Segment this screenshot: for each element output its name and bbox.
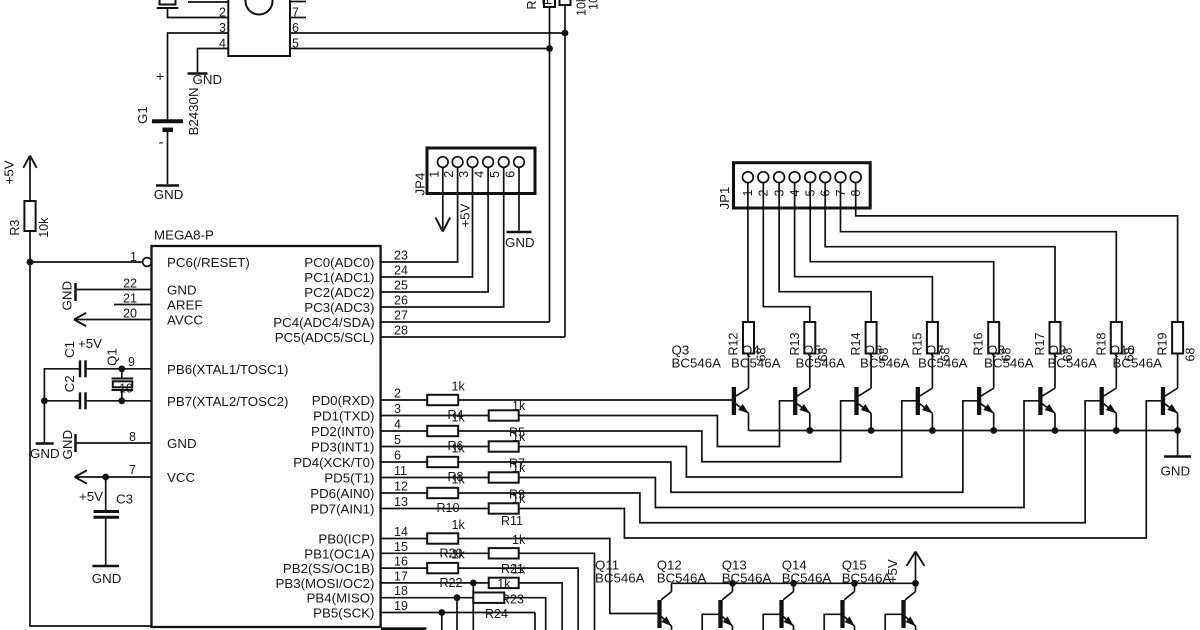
pin 1 bubble xyxy=(143,258,152,267)
node XTAL1 junction xyxy=(118,365,125,372)
wire PD0(RXD) to resistor xyxy=(381,399,428,401)
wire JP4 pin1 to +5V xyxy=(442,167,444,229)
node emitter Q9 xyxy=(1113,427,1120,434)
svg-text:VCC: VCC xyxy=(167,470,195,485)
wire U1 pin5 SDA xyxy=(290,48,550,50)
svg-text:6: 6 xyxy=(394,449,401,463)
svg-text:PD0(RXD): PD0(RXD) xyxy=(312,393,375,408)
svg-text:2: 2 xyxy=(219,6,226,20)
node emitter Q6 xyxy=(929,427,936,434)
svg-text:GND: GND xyxy=(92,571,122,586)
svg-text:R13: R13 xyxy=(788,333,802,356)
JP1 pin 3 circle xyxy=(774,172,785,183)
resistor R18 body xyxy=(1111,322,1122,354)
wire JP4 pin4 inside xyxy=(487,167,489,196)
svg-text:JP1: JP1 xyxy=(717,187,732,210)
wire PD1(TXD) to resistor xyxy=(381,415,489,417)
svg-text:5: 5 xyxy=(488,171,502,178)
wire JP4 pin6 to ground xyxy=(518,167,520,230)
JP1 pin 4 circle xyxy=(789,172,800,183)
svg-text:4: 4 xyxy=(394,418,401,432)
wire PD2(INT0) staircase to Q5 base xyxy=(458,401,855,462)
node C2 ground junction xyxy=(41,397,48,404)
svg-text:PB5(SCK): PB5(SCK) xyxy=(313,606,374,621)
svg-text:B2430N: B2430N xyxy=(186,87,201,135)
JP1 pin 2 circle xyxy=(758,172,769,183)
svg-text:PB2(SS/OC1B): PB2(SS/OC1B) xyxy=(283,561,375,576)
supply +5V arrow at AVCC xyxy=(74,313,86,320)
resistor R5 body xyxy=(489,410,519,420)
wire PD5(T1) staircase to Q8 base xyxy=(519,401,1039,508)
wire PD6(AIN0) staircase to Q9 base xyxy=(458,401,1100,523)
svg-text:C2: C2 xyxy=(62,375,77,392)
svg-text:PD7(AIN1): PD7(AIN1) xyxy=(310,502,374,517)
capacitor C3 plates xyxy=(94,510,120,513)
resistor R21 body xyxy=(489,548,519,558)
svg-text:15: 15 xyxy=(394,540,408,554)
wire battery to ground xyxy=(167,132,169,184)
svg-text:+5V: +5V xyxy=(79,489,103,504)
svg-text:2: 2 xyxy=(394,387,401,401)
svg-text:BC546A: BC546A xyxy=(731,356,781,371)
svg-text:17: 17 xyxy=(394,569,408,583)
wire MISO down xyxy=(456,598,458,630)
transistor Q3 xyxy=(732,387,736,415)
connector JP1 body xyxy=(734,163,871,208)
wire U1 pin3 to battery xyxy=(168,33,229,119)
wire SCL vertical xyxy=(564,5,566,337)
transistor Q14 xyxy=(840,600,844,628)
svg-text:1k: 1k xyxy=(497,577,511,591)
svg-text:1k: 1k xyxy=(512,562,526,576)
svg-text:BC546A: BC546A xyxy=(984,356,1034,371)
resistor R9 body xyxy=(489,472,519,482)
wire PC4 to SDA xyxy=(381,321,550,323)
svg-text:GND: GND xyxy=(193,72,223,87)
svg-text:10k: 10k xyxy=(587,0,601,10)
ground GND below battery xyxy=(156,184,179,187)
wire R20 to Q11 base xyxy=(458,539,657,614)
resistor R19 body xyxy=(1172,322,1183,354)
svg-text:GND: GND xyxy=(167,283,197,298)
wire base Q14 xyxy=(824,614,840,630)
crystal Q1 plates xyxy=(112,378,134,380)
wire MEGA8 pin20 AVCC xyxy=(74,319,152,321)
svg-text:24: 24 xyxy=(394,264,408,278)
wire JP1 pin8 to R19 xyxy=(856,183,1178,322)
JP1 pin 6 circle xyxy=(820,172,831,183)
wire JP1 pin5 to R16 xyxy=(810,183,994,322)
wire C3 to ground xyxy=(105,518,107,566)
svg-text:27: 27 xyxy=(394,309,408,323)
svg-text:AVCC: AVCC xyxy=(167,313,203,328)
wire R22 down xyxy=(458,568,578,630)
wire MEGA8 pin22 GND xyxy=(77,289,152,291)
transistor Q12 xyxy=(718,600,722,628)
wire PD2(INT0) to resistor xyxy=(381,430,428,432)
transistor Q8 xyxy=(1038,387,1042,415)
wire rail to ground xyxy=(1177,431,1179,456)
svg-text:19: 19 xyxy=(394,599,408,613)
svg-text:+: + xyxy=(156,68,164,84)
svg-text:R1: R1 xyxy=(525,0,539,10)
wire JP1 pin7 to R18 xyxy=(841,183,1117,322)
svg-text:3: 3 xyxy=(457,171,471,178)
svg-text:8: 8 xyxy=(129,430,136,444)
svg-text:GND: GND xyxy=(60,281,75,311)
IC U1 DIP-8 RTC body xyxy=(228,0,290,56)
supply +5V arrow at VCC xyxy=(75,470,87,477)
node SCK junction xyxy=(438,609,445,616)
svg-text:1k: 1k xyxy=(452,380,466,394)
svg-text:GND: GND xyxy=(30,446,60,461)
wire U1 pin8 stub xyxy=(290,1,306,3)
node MOSI junction xyxy=(470,580,477,587)
JP4 pin 5 circle xyxy=(498,157,509,168)
wire JP1 pin6 to R17 xyxy=(825,183,1055,322)
node collector Q12 xyxy=(729,580,736,587)
JP1 pin 1 circle xyxy=(743,172,754,183)
transistor Q6 xyxy=(916,387,920,415)
wire PD4(XCK/T0) to resistor xyxy=(381,461,428,463)
svg-text:1k: 1k xyxy=(512,399,526,413)
wire PB3 to R23 xyxy=(381,582,489,584)
svg-text:+5V: +5V xyxy=(885,559,900,583)
JP4 pin 4 circle xyxy=(483,157,494,168)
wire JP1 pin1 to R12 xyxy=(747,183,749,322)
wire PC3(ADC3) to JP4 pin5 xyxy=(381,167,504,307)
svg-text:R14: R14 xyxy=(849,333,863,356)
wire PD7(AIN1) staircase to Q10 base xyxy=(519,401,1162,538)
wire PB0 to R20 xyxy=(381,538,428,540)
svg-text:20: 20 xyxy=(123,307,137,321)
resistor R20 body xyxy=(427,533,458,543)
wire JP4 pin3 inside xyxy=(472,167,474,196)
svg-text:R12: R12 xyxy=(727,333,741,356)
node reset junction xyxy=(27,259,34,266)
svg-text:BC546A: BC546A xyxy=(796,356,846,371)
resistor R6 body xyxy=(427,426,458,436)
resistor R15 body xyxy=(927,322,938,354)
wire PD7(AIN1) to resistor xyxy=(381,508,489,510)
wire SCK down xyxy=(441,613,443,630)
svg-text:MEGA8-P: MEGA8-P xyxy=(154,228,214,243)
wire reset to pin1 xyxy=(30,261,143,263)
transistor Q4 xyxy=(793,387,797,415)
wire PB4 to R24 xyxy=(381,597,474,599)
node emitter Q5 xyxy=(868,427,875,434)
transistor Q15 xyxy=(901,600,905,628)
ground GND at JP4 xyxy=(507,231,532,234)
IC MEGA8-P body xyxy=(152,246,381,627)
transistor Q9 xyxy=(1100,387,1104,415)
svg-text:7: 7 xyxy=(129,463,136,477)
wire R21 down xyxy=(519,553,595,630)
wire JP1 pin4 to R15 xyxy=(795,183,933,322)
svg-text:28: 28 xyxy=(394,324,408,338)
svg-text:PC2(ADC2): PC2(ADC2) xyxy=(304,285,374,300)
svg-text:PD3(INT1): PD3(INT1) xyxy=(311,440,375,455)
svg-text:PC6(/RESET): PC6(/RESET) xyxy=(167,255,250,270)
svg-text:PB0(ICP): PB0(ICP) xyxy=(318,532,374,547)
transistor Q11 xyxy=(657,600,661,628)
svg-text:PB1(OC1A): PB1(OC1A) xyxy=(304,546,374,561)
svg-text:R24: R24 xyxy=(485,607,508,621)
resistor R2 body xyxy=(560,0,571,5)
svg-text:BC546A: BC546A xyxy=(1048,356,1098,371)
svg-text:3: 3 xyxy=(219,21,226,35)
node SDA junction xyxy=(546,45,553,52)
svg-text:1k: 1k xyxy=(452,442,466,456)
resistor R10 body xyxy=(427,488,458,498)
svg-text:10k: 10k xyxy=(37,217,51,238)
svg-text:JP4: JP4 xyxy=(413,173,428,196)
wire R23 down xyxy=(519,583,562,630)
wire PB1 to R21 xyxy=(381,552,489,554)
svg-text:25: 25 xyxy=(394,279,408,293)
svg-text:1k: 1k xyxy=(512,492,526,506)
svg-text:R17: R17 xyxy=(1033,333,1047,356)
capacitor C1 plates xyxy=(79,360,82,377)
svg-text:PD6(AIN0): PD6(AIN0) xyxy=(310,486,374,501)
wire PD5(T1) to resistor xyxy=(381,477,489,479)
svg-text:1k: 1k xyxy=(512,461,526,475)
wire crystal to XTAL2 xyxy=(121,391,123,401)
svg-text:+5V: +5V xyxy=(458,203,473,227)
svg-text:R11: R11 xyxy=(501,514,523,528)
ground rotated at pin8 xyxy=(74,434,77,452)
svg-text:GND: GND xyxy=(154,187,184,202)
resistor R12 body xyxy=(743,322,754,354)
svg-text:1k: 1k xyxy=(452,411,466,425)
svg-text:1: 1 xyxy=(130,250,137,264)
svg-text:+5V: +5V xyxy=(78,336,102,351)
svg-text:GND: GND xyxy=(505,235,535,250)
svg-text:AREF: AREF xyxy=(167,298,202,313)
svg-text:10: 10 xyxy=(119,381,133,395)
wire PD3(INT1) staircase to Q6 base xyxy=(519,401,916,477)
svg-text:PD4(XCK/T0): PD4(XCK/T0) xyxy=(293,455,374,470)
JP4 pin 6 circle xyxy=(514,157,525,168)
JP1 pin 5 circle xyxy=(805,172,816,183)
svg-text:1k: 1k xyxy=(452,548,466,562)
svg-text:BC546A: BC546A xyxy=(672,356,722,371)
node emitter rail end xyxy=(1174,427,1181,434)
svg-text:3: 3 xyxy=(394,402,401,416)
svg-text:R2: R2 xyxy=(541,0,555,5)
wire JP4 pin2 inside xyxy=(457,167,459,196)
svg-text:PB4(MISO): PB4(MISO) xyxy=(307,591,375,606)
wire C1 to ground rail xyxy=(44,369,80,444)
transistor Q5 xyxy=(854,387,858,415)
svg-text:GND: GND xyxy=(1161,464,1191,479)
connector box top edge cut off xyxy=(381,627,426,630)
capacitor C2 plates xyxy=(79,392,82,409)
JP1 pin 7 circle xyxy=(835,172,846,183)
svg-text:C1: C1 xyxy=(62,341,77,358)
node collector Q13 xyxy=(790,580,797,587)
wire MOSI down xyxy=(472,583,474,630)
svg-text:PB6(XTAL1/TOSC1): PB6(XTAL1/TOSC1) xyxy=(167,362,288,377)
battery G1 minus plate xyxy=(163,128,174,133)
resistor R1 body xyxy=(544,0,555,7)
svg-text:BC546A: BC546A xyxy=(595,571,645,586)
svg-text:PD1(TXD): PD1(TXD) xyxy=(313,409,374,424)
svg-text:GND: GND xyxy=(60,430,75,460)
wire reset down-left rail xyxy=(30,262,152,626)
svg-text:68: 68 xyxy=(1184,348,1198,362)
crystal Q1 body xyxy=(113,381,133,387)
wire U1 pin6 SCL xyxy=(290,32,565,34)
wire U1 pin1 xyxy=(188,1,228,3)
svg-text:PD5(T1): PD5(T1) xyxy=(324,471,374,486)
wire C2 to ground rail xyxy=(44,400,80,402)
wire PB5 SCK xyxy=(381,612,535,614)
svg-text:BC546A: BC546A xyxy=(918,356,968,371)
svg-text:R19: R19 xyxy=(1156,333,1170,356)
svg-text:11: 11 xyxy=(394,464,407,478)
wire PC2(ADC2) to JP4 pin4 xyxy=(381,167,489,292)
wire MEGA8 pin9 XTAL1 xyxy=(86,368,152,370)
svg-text:Q1: Q1 xyxy=(105,348,120,366)
svg-text:R18: R18 xyxy=(1094,333,1108,356)
ground GND at U1 pin4 xyxy=(188,72,208,75)
node emitter Q7 xyxy=(990,427,997,434)
svg-text:1: 1 xyxy=(427,171,441,178)
transistor Q10 xyxy=(1161,387,1165,415)
wire XTAL1 to crystal xyxy=(121,369,123,378)
transistor Q7 xyxy=(977,387,981,415)
svg-text:12: 12 xyxy=(394,480,408,494)
supply +5V arrow at JP4 xyxy=(436,218,443,232)
resistor R23 body xyxy=(489,578,519,588)
node MISO junction xyxy=(454,594,461,601)
svg-text:R16: R16 xyxy=(972,333,986,356)
wire PD4(XCK/T0) staircase to Q7 base xyxy=(458,401,977,492)
svg-text:PC1(ADC1): PC1(ADC1) xyxy=(304,270,374,285)
wire PB2 to R22 xyxy=(381,567,428,569)
svg-text:18: 18 xyxy=(394,584,408,598)
svg-text:1k: 1k xyxy=(512,430,526,444)
svg-text:PC0(ADC0): PC0(ADC0) xyxy=(304,255,374,270)
node XTAL2 junction xyxy=(118,397,125,404)
svg-text:G1: G1 xyxy=(135,106,150,124)
svg-text:26: 26 xyxy=(394,294,408,308)
node collector Q15 xyxy=(912,580,919,587)
resistor R14 body xyxy=(866,322,877,354)
wire U1 pin7 stub xyxy=(290,17,306,19)
JP4 pin 3 circle xyxy=(467,157,478,168)
svg-text:1k: 1k xyxy=(452,518,466,532)
resistor R22 body xyxy=(427,563,458,573)
wire SCK turn down xyxy=(534,613,536,630)
wire U1 pin4 to ground xyxy=(198,49,229,73)
ground rotated at pin22 xyxy=(74,283,77,301)
JP4 pin 2 circle xyxy=(452,157,463,168)
supply +5V arrow bottom xyxy=(915,553,917,583)
wire R24 down xyxy=(504,598,545,630)
transistor Q13 xyxy=(779,600,783,628)
wire PC0(ADC0) to JP4 pin2 xyxy=(381,167,458,262)
svg-text:23: 23 xyxy=(394,249,408,263)
svg-text:GND: GND xyxy=(167,436,197,451)
connector JP4 body xyxy=(427,148,535,194)
svg-text:PC3(ADC3): PC3(ADC3) xyxy=(304,300,374,315)
wire PC5 to SCL xyxy=(381,336,565,338)
wire JP4 pin5 inside xyxy=(503,167,505,196)
wire base Q15 xyxy=(885,614,901,630)
wire R3 to reset node xyxy=(29,231,31,262)
svg-text:-: - xyxy=(159,134,164,151)
svg-text:13: 13 xyxy=(394,495,408,509)
wire PD0 to Q3 base xyxy=(458,399,732,401)
ground GND at rail xyxy=(1164,455,1191,458)
resistor R7 body xyxy=(489,441,519,451)
svg-text:1k: 1k xyxy=(452,473,466,487)
svg-text:PC4(ADC4/SDA): PC4(ADC4/SDA) xyxy=(273,315,374,330)
svg-text:21: 21 xyxy=(123,292,137,306)
resistor R24 body xyxy=(473,593,504,603)
supply +5V arrow at R3 xyxy=(23,156,30,168)
wire VCC to C3 xyxy=(105,477,107,511)
node emitter Q8 xyxy=(1052,427,1059,434)
svg-text:4: 4 xyxy=(473,171,487,178)
wire PD3(INT1) to resistor xyxy=(381,446,489,448)
svg-text:BC546A: BC546A xyxy=(860,356,910,371)
svg-text:1k: 1k xyxy=(512,533,526,547)
ground GND crystal xyxy=(36,442,54,445)
wire collector rail +5V xyxy=(672,582,916,584)
svg-text:16: 16 xyxy=(394,555,408,569)
resistor R16 body xyxy=(988,322,999,354)
node emitter Q4 xyxy=(806,427,813,434)
resistor R4 body xyxy=(427,395,458,405)
resistor R3 body xyxy=(24,201,35,231)
wire MEGA8 pin8 GND xyxy=(77,442,152,444)
svg-text:PB7(XTAL2/TOSC2): PB7(XTAL2/TOSC2) xyxy=(167,394,288,409)
wire MEGA8 pin21 stub xyxy=(114,304,152,306)
svg-text:+5V: +5V xyxy=(2,160,17,184)
wire JP1 pin3 to R14 xyxy=(779,183,871,322)
wire JP1 pin2 to R13 xyxy=(763,183,810,322)
node collector Q14 xyxy=(851,580,858,587)
battery G1 plus plate xyxy=(152,119,183,123)
wire PD1(TXD) staircase to Q4 base xyxy=(519,401,794,447)
resistor R11 body xyxy=(489,503,519,513)
resistor R8 body xyxy=(427,457,458,467)
svg-text:C3: C3 xyxy=(116,492,133,507)
wire crystal to U1 pin2 xyxy=(168,8,229,18)
svg-text:PD2(INT0): PD2(INT0) xyxy=(311,424,375,439)
resistor R13 body xyxy=(804,322,815,354)
resistor R17 body xyxy=(1050,322,1061,354)
wire emitter rail xyxy=(749,430,1178,432)
ground GND at C3 xyxy=(92,565,119,568)
svg-text:PC5(ADC5/SCL): PC5(ADC5/SCL) xyxy=(275,330,375,345)
svg-text:22: 22 xyxy=(123,277,137,291)
wire base Q12 xyxy=(702,614,718,630)
svg-text:R3: R3 xyxy=(8,220,22,236)
IC U1 notch xyxy=(246,0,273,15)
crystal Q2 body xyxy=(157,7,179,9)
wire PD6(AIN0) to resistor xyxy=(381,492,428,494)
svg-text:5: 5 xyxy=(394,433,401,447)
JP1 pin 8 circle xyxy=(850,172,861,183)
svg-text:4: 4 xyxy=(219,37,226,51)
svg-text:14: 14 xyxy=(394,525,408,539)
wire MEGA8 pin10 XTAL2 xyxy=(86,400,152,402)
wire PC1(ADC1) to JP4 pin3 xyxy=(381,167,473,277)
